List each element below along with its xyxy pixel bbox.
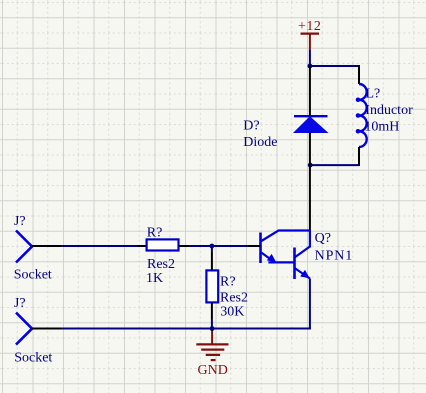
resistor R1 [146,225,179,286]
svg-text:30K: 30K [220,305,244,320]
transistor Q1 pin base [248,245,261,247]
resistor R1 pin right [179,245,189,247]
transistor Q1 pin emitter [309,279,311,329]
wire inductor bottom to node [310,164,360,166]
svg-text:Inductor: Inductor [365,103,413,118]
resistor R2 [206,270,248,319]
wire R1 to node [189,245,248,247]
socket J2 pin [32,328,61,330]
svg-text:J?: J? [14,296,26,311]
svg-text:10mH: 10mH [364,119,399,134]
wire top node to inductor [309,65,360,67]
svg-text:1K: 1K [146,271,163,286]
transistor Q1 pin collector [309,165,311,230]
socket J1 pin [32,245,61,247]
svg-text:Socket: Socket [14,350,52,365]
diode D1 pin cathode [309,66,311,115]
svg-text:Q?: Q? [315,231,331,246]
socket J2 [14,296,53,365]
svg-text:GND: GND [198,363,228,378]
svg-text:Socket: Socket [14,268,52,283]
svg-text:R?: R? [220,274,236,289]
transistor Q1 NPN1 darlington [261,231,354,280]
svg-text:NPN1: NPN1 [315,248,354,263]
diode D1 [243,116,327,150]
svg-text:R?: R? [147,225,163,240]
svg-text:+12: +12 [298,19,321,34]
junction top node [308,64,313,69]
socket J1 [14,214,52,283]
resistor R2 pin bottom [211,302,213,319]
svg-text:J?: J? [14,214,26,229]
inductor L1 pin top [358,65,360,84]
wire node down [211,246,213,252]
wire R2 to bottom node [211,319,213,329]
svg-text:Diode: Diode [243,135,277,150]
inductor L1 [356,84,413,147]
wire J2 to emitter [61,328,311,330]
wire node to gnd [211,329,213,332]
junction bottom gnd node [210,326,215,331]
inductor L1 pin bottom [358,147,360,166]
svg-text:D?: D? [243,118,259,133]
resistor R2 pin top [211,252,213,270]
svg-text:Res2: Res2 [220,291,248,306]
resistor R1 pin left [137,245,147,247]
wire +12 stem to node [309,50,311,66]
junction bottom node [308,163,313,168]
ground GND [196,331,228,378]
svg-text:L?: L? [366,87,381,102]
junction base node [210,244,215,249]
diode D1 pin anode [309,133,311,166]
power port +12 [298,19,321,50]
wire J1 to R1 [61,245,137,247]
